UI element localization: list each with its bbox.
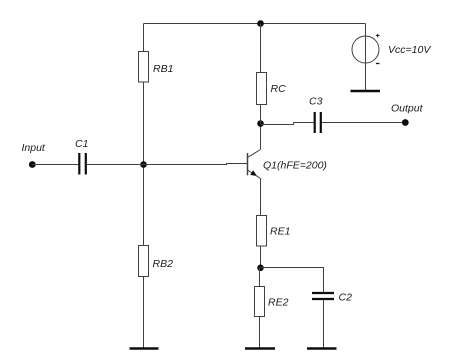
wire left column upper — [143, 24, 145, 52]
wire collector to C3 — [261, 123, 314, 125]
node emitter junction — [257, 265, 264, 272]
svg-text:Input: Input — [22, 142, 46, 154]
wire input to C1 — [32, 164, 78, 166]
svg-text:C3: C3 — [309, 96, 323, 108]
svg-text:Vcc=10V: Vcc=10V — [388, 44, 431, 56]
wire left column middle — [143, 82, 145, 246]
svg-text:Q1(hFE=200): Q1(hFE=200) — [263, 160, 327, 172]
voltage source V1 circle — [352, 36, 379, 63]
wire emitter — [260, 179, 262, 216]
svg-text:Output: Output — [391, 103, 424, 115]
plus sign — [376, 34, 380, 38]
resistor RE2 — [255, 287, 265, 317]
wire RE1 bottom — [260, 246, 262, 268]
capacitor C1 — [79, 153, 86, 175]
wire RC bottom — [260, 105, 262, 124]
wire RE2 bottom — [259, 317, 261, 348]
node Output terminal — [402, 119, 409, 126]
wire junction to C2 — [261, 268, 324, 292]
svg-text:RE1: RE1 — [270, 226, 290, 238]
svg-text:RC: RC — [271, 83, 287, 95]
svg-text:C1: C1 — [75, 138, 88, 150]
ground under RE2 — [245, 347, 275, 350]
wire C3 to output — [322, 122, 405, 124]
node collector junction — [257, 120, 264, 127]
capacitor C2 — [312, 293, 334, 299]
ground under C2 — [307, 347, 337, 350]
wire RC top — [260, 24, 262, 73]
ground under Vcc — [351, 90, 381, 92]
minus sign — [376, 63, 380, 65]
wire Vcc drop — [365, 24, 367, 91]
ground under RB2 — [130, 347, 159, 350]
transistor Q1 — [248, 150, 261, 179]
svg-text:RB1: RB1 — [153, 63, 173, 75]
node top junction — [257, 20, 264, 27]
node Input terminal — [29, 161, 36, 168]
resistor RC — [257, 73, 267, 105]
resistor RB2 — [139, 246, 149, 277]
wire collector — [260, 124, 262, 150]
wire C1 to base — [87, 164, 248, 165]
node base junction — [140, 161, 147, 168]
wire C2 to ground — [323, 300, 325, 348]
svg-text:RB2: RB2 — [153, 258, 174, 270]
resistor RB1 — [139, 52, 149, 83]
wire RE2 top — [259, 268, 261, 287]
wire top rail — [144, 23, 366, 25]
wire left column lower — [143, 277, 145, 348]
svg-text:C2: C2 — [339, 292, 353, 304]
svg-text:RE2: RE2 — [268, 297, 289, 309]
resistor RE1 — [257, 216, 267, 247]
capacitor C3 — [315, 112, 321, 133]
